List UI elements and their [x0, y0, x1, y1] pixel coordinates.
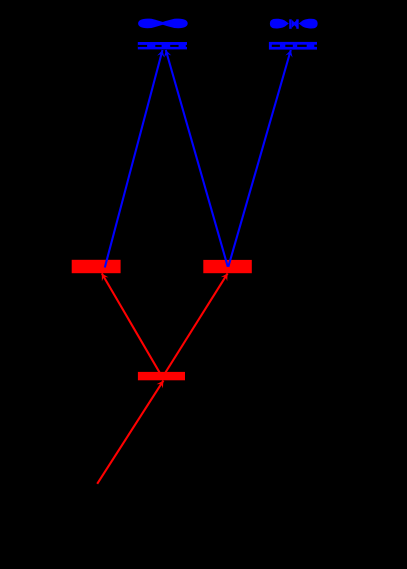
- red lineage arrow F (center bar to right red bar): [163, 273, 228, 377]
- chromatid bar right: [296, 19, 298, 29]
- blue lineage arrow B (right red bar to plate P1): [164, 50, 228, 267]
- chromatid bar left: [289, 19, 292, 29]
- spindle S1 (top-left bow-tie): [138, 19, 188, 29]
- cell bar R (right red bar): [203, 260, 252, 273]
- spindle S2 (top-right anaphase spindle): [270, 19, 318, 29]
- cell bar L (left red bar): [72, 260, 121, 273]
- midzone microtubule cross: [292, 20, 296, 28]
- right lobe: [299, 19, 318, 29]
- left lobe: [270, 19, 289, 29]
- blue lineage arrow A (left red bar to plate P1): [105, 50, 165, 268]
- cell bar C (center red bar): [138, 372, 185, 380]
- blue lineage arrow C (right red bar to plate P2): [228, 50, 292, 267]
- chromosome plate P1 (top-left dashed double bar): [138, 42, 187, 49]
- red lineage arrow E (center bar to left red bar): [102, 273, 162, 377]
- red lineage arrow D (bottom-left to center bar): [97, 381, 163, 484]
- chromosome plate P2 (top-right dashed double bar): [269, 42, 317, 50]
